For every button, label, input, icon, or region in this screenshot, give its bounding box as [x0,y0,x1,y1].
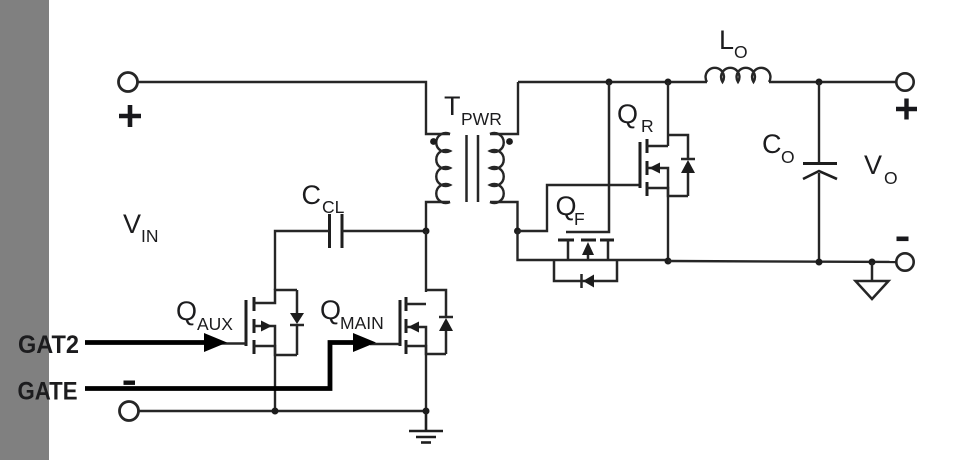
svg-text:AUX: AUX [197,314,233,334]
minus VIN [124,381,136,385]
node dot rail A [606,79,613,86]
node dot rail B [665,79,672,86]
wire top output rail [518,81,707,83]
node dot CO top [816,79,823,86]
arrow GAT2 [85,333,227,352]
wire QR source down [667,188,669,261]
wire CCL left [275,231,329,290]
transformer TPWR primary winding [436,133,450,203]
wire CO top [818,82,820,163]
svg-text:O: O [734,42,748,62]
label LO [719,25,748,62]
svg-text:O: O [781,147,795,167]
capacitor CCL [330,214,343,248]
transformer primary dot [430,138,437,145]
svg-text:GAT2: GAT2 [18,331,79,359]
wire CCL right [342,230,426,232]
transistor QAUX [246,290,304,355]
label VO [864,150,898,188]
wire primary bottom to node [426,202,450,231]
node dot QR source [665,258,672,265]
wire QAUX source down [274,346,276,411]
transistor QMAIN [400,290,453,354]
arrow GATE [85,333,376,389]
gray sidebar [0,0,49,460]
label CO [762,129,795,167]
inductor LO [706,68,771,82]
label CCL [302,180,345,217]
terminal input circle top [119,73,138,92]
svg-text:MAIN: MAIN [340,313,384,333]
svg-text:IN: IN [141,226,159,246]
transistor QF [554,240,617,288]
label QMAIN [320,295,384,333]
wire LO to output [769,81,896,83]
wire top rail primary [138,82,450,134]
svg-text:T: T [444,91,461,121]
label VIN [123,209,159,246]
transistor QR [640,135,695,196]
wire gate lead QMAIN [370,343,400,345]
minus VO [897,237,909,242]
ground output [856,262,889,299]
svg-text:V: V [864,150,882,180]
ground primary [409,411,443,443]
node dot ground output [869,259,876,266]
svg-text:Q: Q [320,295,341,325]
svg-text:R: R [641,116,654,136]
wire secondary top to rail [490,82,518,134]
svg-text:O: O [884,168,898,188]
svg-text:F: F [574,209,585,229]
transformer secondary winding [490,133,504,203]
terminal output plus [896,99,917,120]
label QF [556,191,585,229]
terminal output circle top [896,73,913,90]
wire bottom input rail [139,410,426,412]
label QR [617,99,654,136]
wire QR gate [518,185,641,231]
wire QMAIN source down [425,346,427,411]
transformer secondary dot [506,138,513,145]
node dot CO bottom [816,259,823,266]
svg-text:GATE: GATE [18,378,78,406]
svg-text:PWR: PWR [461,109,502,129]
node dot QMAIN source [423,408,430,415]
wire CO bottom [818,173,820,262]
svg-text:Q: Q [617,99,638,129]
wire node to QMAIN drain [425,231,427,292]
terminal input plus [119,105,141,127]
terminal input circle bottom [120,402,139,421]
wire QR drain from rail [667,82,669,146]
node dot secondary bottom [514,228,521,235]
wire secondary bottom node to QF [518,231,669,260]
wire QF gate from rail [566,82,609,232]
label QAUX [176,296,233,334]
wire gate lead QAUX [220,342,246,344]
svg-text:L: L [719,25,734,55]
transformer core [467,135,479,202]
capacitor CO [803,164,837,180]
svg-text:Q: Q [176,296,197,326]
wire secondary bottom to node [490,202,518,231]
svg-text:C: C [302,180,322,210]
wire bottom output rail [668,261,896,262]
node dot QAUX source [272,408,279,415]
label TPWR [444,91,502,129]
svg-text:C: C [762,129,782,159]
node dot clamp [423,228,430,235]
svg-text:V: V [123,209,141,239]
terminal output circle bottom [896,253,913,270]
